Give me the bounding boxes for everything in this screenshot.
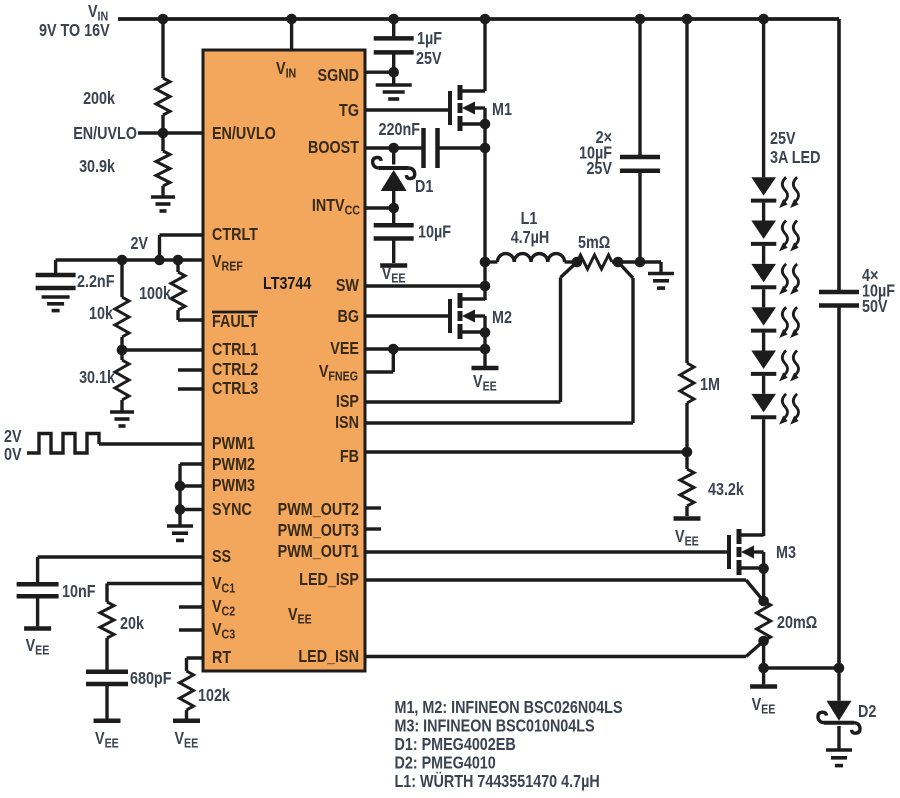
wire VIN pin	[290, 19, 293, 50]
svg-text:10nF: 10nF	[62, 583, 96, 602]
svg-text:ISP: ISP	[336, 393, 359, 412]
ground below SGND	[376, 83, 412, 87]
wire LED5 to LED6	[762, 376, 765, 394]
terminal VEE below 20mOhm	[750, 684, 777, 689]
LED D-LED3	[751, 264, 776, 282]
svg-text:VIN: VIN	[88, 3, 108, 24]
svg-text:4.7µH: 4.7µH	[511, 229, 550, 248]
terminal VEE below 10nF	[24, 626, 51, 631]
svg-text:0V: 0V	[4, 446, 22, 465]
wire VEE node to D2	[764, 666, 839, 669]
svg-text:220nF: 220nF	[379, 121, 421, 140]
wire M1 drain to rail	[483, 19, 486, 91]
junction dots on VIN rail	[158, 14, 169, 25]
wire VEE terminal	[762, 668, 765, 684]
svg-text:M3: M3	[776, 544, 796, 563]
node EN/UVLO	[138, 131, 203, 134]
svg-text:PWM_OUT2: PWM_OUT2	[278, 501, 359, 520]
wire BOOST pin	[365, 146, 422, 149]
wire SYNC stub	[180, 508, 203, 511]
svg-text:M3: INFINEON BSC010N04LS: M3: INFINEON BSC010N04LS	[395, 717, 595, 736]
terminal VEE below 10uF	[380, 263, 407, 268]
svg-text:BG: BG	[337, 308, 359, 327]
svg-text:L1: L1	[521, 210, 538, 229]
transistor M1 NMOS	[448, 91, 452, 125]
LED D-LED6	[751, 394, 776, 412]
wire M1 source down	[483, 124, 486, 300]
capacitor C-2x10uF 25V	[620, 155, 660, 160]
wire VC2 stub	[179, 605, 203, 608]
capacitor C-220nF	[421, 128, 426, 168]
wire rail to C-1uF	[392, 19, 395, 36]
LED D-LED5	[751, 351, 776, 369]
svg-text:200k: 200k	[83, 90, 115, 109]
wire PWM2 bracket	[180, 464, 203, 525]
ground below 2.2nF	[42, 295, 70, 299]
svg-text:L1: WÜRTH 7443551470 4.7µH: L1: WÜRTH 7443551470 4.7µH	[395, 771, 600, 792]
capacitor C-10nF	[17, 582, 59, 587]
transistor M2 NMOS	[448, 299, 452, 333]
wire D2 to ground	[837, 726, 840, 750]
svg-text:FAULT: FAULT	[212, 313, 257, 332]
wire BG pin	[365, 314, 450, 317]
wire 30.1k to ground	[120, 400, 123, 412]
wire VREF to C-2.2nF	[54, 260, 57, 273]
wire 43.2k to VEE	[685, 506, 688, 516]
svg-text:D2: PMEG4010: D2: PMEG4010	[395, 754, 496, 773]
wire TG pin	[365, 108, 450, 111]
svg-text:CTRL3: CTRL3	[212, 380, 258, 399]
diode D1 schottky	[381, 170, 407, 191]
svg-text:2.2nF: 2.2nF	[77, 273, 115, 292]
resistor R-30.9k	[156, 151, 170, 186]
svg-text:25V: 25V	[586, 160, 612, 179]
wire VC1 pin	[107, 584, 203, 603]
svg-text:3A LED: 3A LED	[770, 149, 820, 168]
svg-text:SW: SW	[336, 277, 360, 296]
svg-text:43.2k: 43.2k	[708, 481, 744, 500]
svg-text:9V TO 16V: 9V TO 16V	[39, 22, 110, 41]
svg-text:CTRL1: CTRL1	[212, 341, 258, 360]
wire RT pin	[187, 658, 204, 671]
svg-text:20k: 20k	[120, 615, 144, 634]
svg-text:PWM_OUT3: PWM_OUT3	[278, 522, 359, 541]
wire SW node to L1	[485, 260, 497, 263]
svg-text:2V: 2V	[130, 235, 148, 254]
resistor R-20k	[100, 602, 114, 638]
svg-text:SS: SS	[212, 548, 231, 567]
svg-text:VEE: VEE	[752, 696, 776, 717]
node VEE pin wire	[365, 347, 485, 350]
wire CTRLT pin	[160, 235, 204, 260]
svg-text:M1, M2: INFINEON BSC026N04LS: M1, M2: INFINEON BSC026N04LS	[395, 699, 623, 718]
svg-text:25V: 25V	[416, 50, 442, 69]
svg-text:CTRL2: CTRL2	[212, 361, 258, 380]
svg-text:VEE: VEE	[174, 730, 198, 751]
svg-text:EN/UVLO: EN/UVLO	[73, 125, 137, 144]
wire 20mOhm to VEE node	[762, 641, 765, 668]
svg-text:D1: D1	[415, 178, 433, 197]
wire 200k to 30.9k	[161, 115, 164, 151]
wire PWM1 pin	[99, 442, 203, 445]
svg-text:D2: D2	[858, 703, 876, 722]
ground below 30.9k	[151, 195, 175, 199]
svg-text:LED_ISP: LED_ISP	[299, 571, 359, 590]
svg-text:CTRLT: CTRLT	[212, 226, 258, 245]
wire VFNEG pin	[365, 349, 393, 372]
wire D1 to INTVCC	[392, 191, 395, 208]
wire SS pin	[38, 557, 203, 582]
svg-text:25V: 25V	[770, 130, 796, 149]
wire BOOST to D1	[392, 148, 395, 165]
resistor R-100k	[176, 260, 179, 272]
resistor R-1M	[680, 363, 694, 403]
svg-text:2V: 2V	[4, 428, 22, 447]
terminal VEE below M2	[472, 366, 499, 371]
svg-text:PWM3: PWM3	[212, 477, 255, 496]
ground right of 5mOhm	[648, 272, 674, 276]
LED D-LED1	[751, 177, 776, 195]
wire VIN right rail down	[837, 19, 841, 290]
svg-text:50V: 50V	[862, 298, 888, 317]
wire 20k to 680pF	[105, 638, 108, 670]
resistor R-200k	[156, 78, 170, 115]
wire 680pF to VEE	[105, 686, 108, 719]
svg-text:FB: FB	[340, 448, 359, 467]
svg-text:VEE: VEE	[330, 340, 359, 359]
wire LED4 to LED5	[762, 333, 765, 351]
wire rail to C-2x10uF	[638, 19, 641, 155]
wire INTVCC pin	[365, 206, 394, 209]
svg-text:1µF: 1µF	[417, 30, 442, 49]
capacitor C-1uF 25V	[374, 36, 414, 41]
svg-text:RT: RT	[212, 649, 231, 668]
IC U1 LT3744 body	[203, 50, 365, 671]
node FB wire	[365, 450, 687, 453]
wire SGND pin	[365, 70, 394, 73]
svg-text:PWM_OUT1: PWM_OUT1	[278, 543, 359, 562]
resistor R-43.2k	[685, 452, 688, 469]
wire LED3 to LED4	[762, 289, 765, 307]
svg-text:VEE: VEE	[382, 265, 406, 286]
svg-text:VEE: VEE	[675, 528, 699, 549]
wire PWM_OUT3 stub	[365, 527, 381, 530]
LED D-LED2	[751, 221, 776, 239]
wire LED_ISN pin	[365, 641, 764, 657]
svg-text:VEE: VEE	[95, 730, 119, 751]
node CTRL1 wire	[122, 348, 203, 351]
wire 220nF to M1 source	[440, 146, 486, 149]
resistor R-30.1k	[120, 350, 123, 360]
node VIN input rail	[118, 17, 839, 21]
wire ISP pin	[365, 262, 577, 402]
svg-text:SYNC: SYNC	[212, 501, 252, 520]
svg-text:1M: 1M	[700, 376, 720, 395]
svg-text:SGND: SGND	[318, 67, 359, 86]
wire LED_ISP pin	[365, 580, 764, 601]
svg-text:LT3744: LT3744	[263, 275, 311, 294]
wire 30.9k to ground	[161, 186, 164, 197]
terminal VEE below 43.2k	[674, 516, 701, 521]
wire LED2 to LED3	[762, 246, 765, 264]
wire 100k to FAULT	[178, 310, 203, 320]
wire C-2x10uF down	[638, 173, 641, 262]
ground below 30.1k	[110, 410, 134, 414]
capacitor C-10uF	[374, 223, 414, 228]
terminal VEE below 680pF	[94, 718, 121, 723]
ground below SYNC	[167, 524, 193, 528]
wire CTRL2 stub	[178, 368, 203, 371]
node VREF wire	[56, 258, 203, 261]
ground below D2	[826, 748, 852, 752]
wire M3 source down	[762, 569, 765, 602]
diode D2 schottky	[827, 701, 852, 721]
svg-text:5mΩ: 5mΩ	[578, 234, 610, 253]
wire 10k to CTRL1	[120, 337, 123, 350]
wire LED6 to M3 drain	[762, 419, 765, 536]
svg-text:M1: M1	[492, 101, 512, 120]
wire INTVCC to C-10uF	[392, 208, 395, 223]
svg-text:10µF: 10µF	[418, 223, 451, 242]
capacitor C-4x10uF 50V	[819, 290, 859, 295]
inductor L1 4.7uH	[497, 254, 564, 262]
wire rail to 1M	[685, 19, 688, 363]
capacitor C-2.2nF	[36, 273, 76, 278]
wire LED1 to LED2	[762, 203, 765, 221]
wire to ground right of 5mOhm	[659, 262, 662, 273]
wire D2 top	[837, 668, 840, 701]
wire L1 to 5mOhm	[565, 260, 577, 263]
wire M2 source down	[483, 333, 486, 367]
wire C-1uF to ground	[392, 54, 395, 85]
svg-text:M2: M2	[492, 309, 512, 328]
svg-text:VEE: VEE	[473, 373, 497, 394]
wire PWM_OUT2 stub	[365, 506, 381, 509]
svg-text:PWM2: PWM2	[212, 456, 255, 475]
wire VC3 stub	[179, 628, 203, 631]
wire VIN to 200k	[161, 19, 164, 78]
LED D-LED4	[751, 307, 776, 325]
node 5mOhm right	[612, 260, 661, 263]
resistor R-20mOhm sense	[757, 601, 771, 641]
wire 10nF to VEE	[36, 598, 39, 626]
wire 1M to FB	[685, 403, 688, 452]
wire rail to LED string	[762, 19, 765, 177]
wire C-10uF to VEE	[392, 241, 395, 264]
wire CTRL3 stub	[178, 387, 203, 390]
svg-text:10k: 10k	[89, 305, 113, 324]
svg-text:TG: TG	[339, 102, 359, 121]
svg-text:PWM1: PWM1	[212, 435, 255, 454]
waveform square wave	[27, 434, 99, 454]
wire PWM3 stub	[180, 484, 203, 487]
svg-text:20mΩ: 20mΩ	[777, 614, 817, 633]
resistor R-10k	[120, 260, 123, 297]
resistor R-102k	[180, 671, 194, 710]
svg-text:100k: 100k	[139, 285, 171, 304]
svg-text:VEE: VEE	[26, 637, 50, 658]
svg-text:ISN: ISN	[335, 414, 359, 433]
capacitor C-680pF	[86, 670, 128, 675]
resistor R-5mOhm sense	[577, 255, 612, 269]
wire PWM_OUT1 to M3 gate	[365, 550, 729, 553]
wire ISN pin	[365, 262, 633, 423]
svg-text:680pF: 680pF	[130, 670, 172, 689]
wire 102k to VEE	[185, 710, 188, 719]
wire SW pin	[365, 284, 485, 287]
svg-text:BOOST: BOOST	[308, 139, 359, 158]
terminal VEE below 102k	[173, 718, 200, 723]
svg-text:D1: PMEG4002EB: D1: PMEG4002EB	[395, 736, 516, 755]
svg-text:30.9k: 30.9k	[79, 158, 115, 177]
svg-text:30.1k: 30.1k	[79, 369, 115, 388]
svg-text:LED_ISN: LED_ISN	[298, 648, 359, 667]
svg-text:102k: 102k	[198, 687, 230, 706]
transistor M3 NMOS	[727, 535, 731, 569]
svg-text:EN/UVLO: EN/UVLO	[212, 125, 276, 144]
